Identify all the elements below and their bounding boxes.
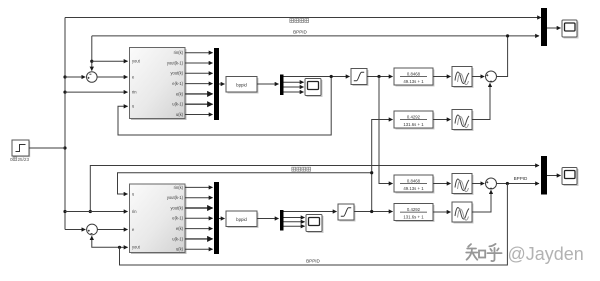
svg-text:49.13s + 1: 49.13s + 1 xyxy=(403,79,424,84)
scope Scope2 (PID params bottom) xyxy=(306,215,324,234)
svg-text:u: u xyxy=(132,191,134,196)
wire: TF4 to TD4 xyxy=(433,211,451,213)
svg-text:u(k-1): u(k-1) xyxy=(172,102,183,107)
svg-text:rin(k): rin(k) xyxy=(174,50,184,55)
wire: kp/ki/kd to scope1 xyxy=(284,82,304,92)
wire: bppid1 to demux1 xyxy=(257,83,279,85)
step source Step (0到25/23) xyxy=(10,140,30,162)
svg-text:BPPID: BPPID xyxy=(293,30,307,35)
transfer function TF1 0.8468/(49.13s+1) xyxy=(394,68,435,87)
wire: trunk bottom corner into sum2 xyxy=(65,229,85,231)
saturation block Sat2 xyxy=(338,204,356,222)
watermark 知乎@Jayden xyxy=(466,244,584,264)
svg-text:yout: yout xyxy=(132,59,141,64)
sum junction Sum2r (top-right) xyxy=(486,71,497,82)
wire: TD3 to sum3 xyxy=(472,183,484,185)
svg-text:BPPID: BPPID xyxy=(514,176,528,181)
scope Scope1 (PID params) xyxy=(305,79,323,98)
wire: u1 cross-coupling down to TF3 xyxy=(379,77,393,184)
wire: bottom BPPID feedback line (yout2) xyxy=(120,184,508,266)
transport delay TD1 xyxy=(452,67,474,89)
wire: u2 feedback into subsystem2 input xyxy=(118,171,374,194)
wire: TD2 up into sum2r xyxy=(472,83,490,119)
svg-text:u: u xyxy=(132,104,134,109)
demux Demux2 xyxy=(280,210,284,231)
wire: TD1 to sum2r xyxy=(472,76,484,78)
demux Demux1 xyxy=(280,75,284,96)
svg-text:yout(k): yout(k) xyxy=(170,205,183,210)
svg-text:u(k): u(k) xyxy=(176,247,184,252)
wire: TF1 to TD1 xyxy=(433,76,451,78)
svg-text:e(k-1): e(k-1) xyxy=(172,81,183,86)
svg-text:0.8468: 0.8468 xyxy=(407,178,421,183)
svg-text:yout(k): yout(k) xyxy=(170,71,183,76)
svg-text:49.13s + 1: 49.13s + 1 xyxy=(403,186,424,191)
transfer function TF4 0.4292/(131.6s+1) xyxy=(394,204,435,223)
wire: rin2 trunk to subsystem2 xyxy=(65,211,128,213)
mux Mux3 (bottom right) xyxy=(541,156,547,195)
svg-text:0.4292: 0.4292 xyxy=(407,114,421,119)
svg-text:0.8468: 0.8468 xyxy=(407,71,421,76)
svg-text:yout: yout xyxy=(132,245,141,250)
scope Scope3 (bottom right) xyxy=(562,168,579,187)
scope Scope0 (top right) xyxy=(562,20,579,39)
svg-text:u(k): u(k) xyxy=(176,112,184,117)
svg-text:yout(k-1): yout(k-1) xyxy=(167,60,184,65)
wire: mux1 to bppid1 xyxy=(219,83,225,85)
svg-text:e(k): e(k) xyxy=(176,91,184,96)
transport delay TD2 xyxy=(452,110,474,132)
transfer function TF3 0.8468/(49.13s+1) xyxy=(394,175,435,194)
wire: e2 sum2 to subsystem2 xyxy=(97,229,127,231)
s-function block bppid2 xyxy=(226,211,259,228)
svg-text:u(k-1): u(k-1) xyxy=(172,236,183,241)
wire: rin1 trunk to subsystem xyxy=(65,91,128,93)
wire: mux2 to bppid2 xyxy=(219,218,225,220)
wire: yout1 branch into subsystem input xyxy=(92,60,128,62)
wire: bppid2 to demux2 xyxy=(257,218,279,220)
wire: u1 demux to saturation xyxy=(284,75,350,78)
wire: kp/ki/kd to scope2 xyxy=(284,218,305,227)
wire: step output to trunk xyxy=(29,147,65,149)
svg-text:bppid: bppid xyxy=(236,217,247,222)
wire: block1 outputs to mux1 (7 signals) xyxy=(185,53,213,115)
wire: TF3 to TD3 xyxy=(433,183,451,185)
wire: u2 demux to saturation2 xyxy=(284,211,337,213)
svg-text:yout(k-1): yout(k-1) xyxy=(167,195,184,200)
wire: mux0 to scope0 xyxy=(547,27,561,29)
wire: mux3 to scope3 xyxy=(547,175,561,177)
svg-text:131.6s + 1: 131.6s + 1 xyxy=(403,122,424,127)
svg-text:rin: rin xyxy=(132,90,137,95)
wire: yout2 feedback into sum2 and subsystem2 xyxy=(92,236,128,249)
transport delay TD3 xyxy=(452,174,474,196)
mux Mux2 xyxy=(214,182,219,254)
sum junction Sum1 (top-left) xyxy=(87,72,98,83)
transfer function TF2 0.4292/(131.6s+1) xyxy=(394,111,435,130)
svg-text:25/23: 25/23 xyxy=(18,157,30,162)
subsystem block2 (BP-PID states, bottom) xyxy=(130,184,187,254)
mux Mux0 (top right) xyxy=(541,8,547,46)
wire: e1 sum1 to subsystem xyxy=(97,76,127,78)
transport delay TD4 xyxy=(452,202,474,224)
wire: u2 saturated to TF4 xyxy=(354,210,393,213)
svg-text:@Jayden: @Jayden xyxy=(508,244,584,264)
wire: u1 feedback into subsystem input xyxy=(118,77,331,136)
svg-text:e(k-1): e(k-1) xyxy=(172,216,183,221)
saturation block Sat1 xyxy=(351,69,369,87)
wire: reference trunk (net rin) xyxy=(63,18,66,230)
wire: trunk to sum1 xyxy=(65,76,85,78)
subsystem block1 (BP-PID states, top) xyxy=(130,48,187,121)
sum junction Sum2 (bottom-left) xyxy=(87,224,98,235)
svg-text:e(k): e(k) xyxy=(176,226,184,231)
wire: u2 cross-coupling up to TF2 xyxy=(372,120,393,212)
wire: TF2 to TD2 xyxy=(433,119,451,121)
wire: u1 saturated to TF1 xyxy=(367,75,393,78)
wire: plant1 output up to mux0 and feedback xyxy=(497,34,540,76)
svg-text:BPPID: BPPID xyxy=(306,258,320,263)
svg-text:131.6s + 1: 131.6s + 1 xyxy=(403,215,424,220)
svg-text:rin: rin xyxy=(132,209,137,214)
svg-text:0.4292: 0.4292 xyxy=(407,207,421,212)
wire: TD4 up into sum3 xyxy=(472,190,491,212)
wire: top target-temperature line to mux xyxy=(65,18,541,23)
wire: top BPPID feedback line (yout1) xyxy=(90,30,507,71)
svg-text:rin(k): rin(k) xyxy=(174,185,184,190)
svg-text:0: 0 xyxy=(10,157,13,162)
s-function block bppid1 xyxy=(226,77,259,94)
mux Mux1 xyxy=(214,48,219,120)
wire: plant2 output to mux3 with BPPID label xyxy=(497,176,540,185)
wire: bottom target-temperature line to mux3 xyxy=(89,166,539,214)
sum junction Sum3 (bottom-right) xyxy=(486,178,497,189)
svg-text:bppid: bppid xyxy=(236,82,247,87)
wire: block2 outputs to mux2 (7 signals) xyxy=(185,187,213,249)
